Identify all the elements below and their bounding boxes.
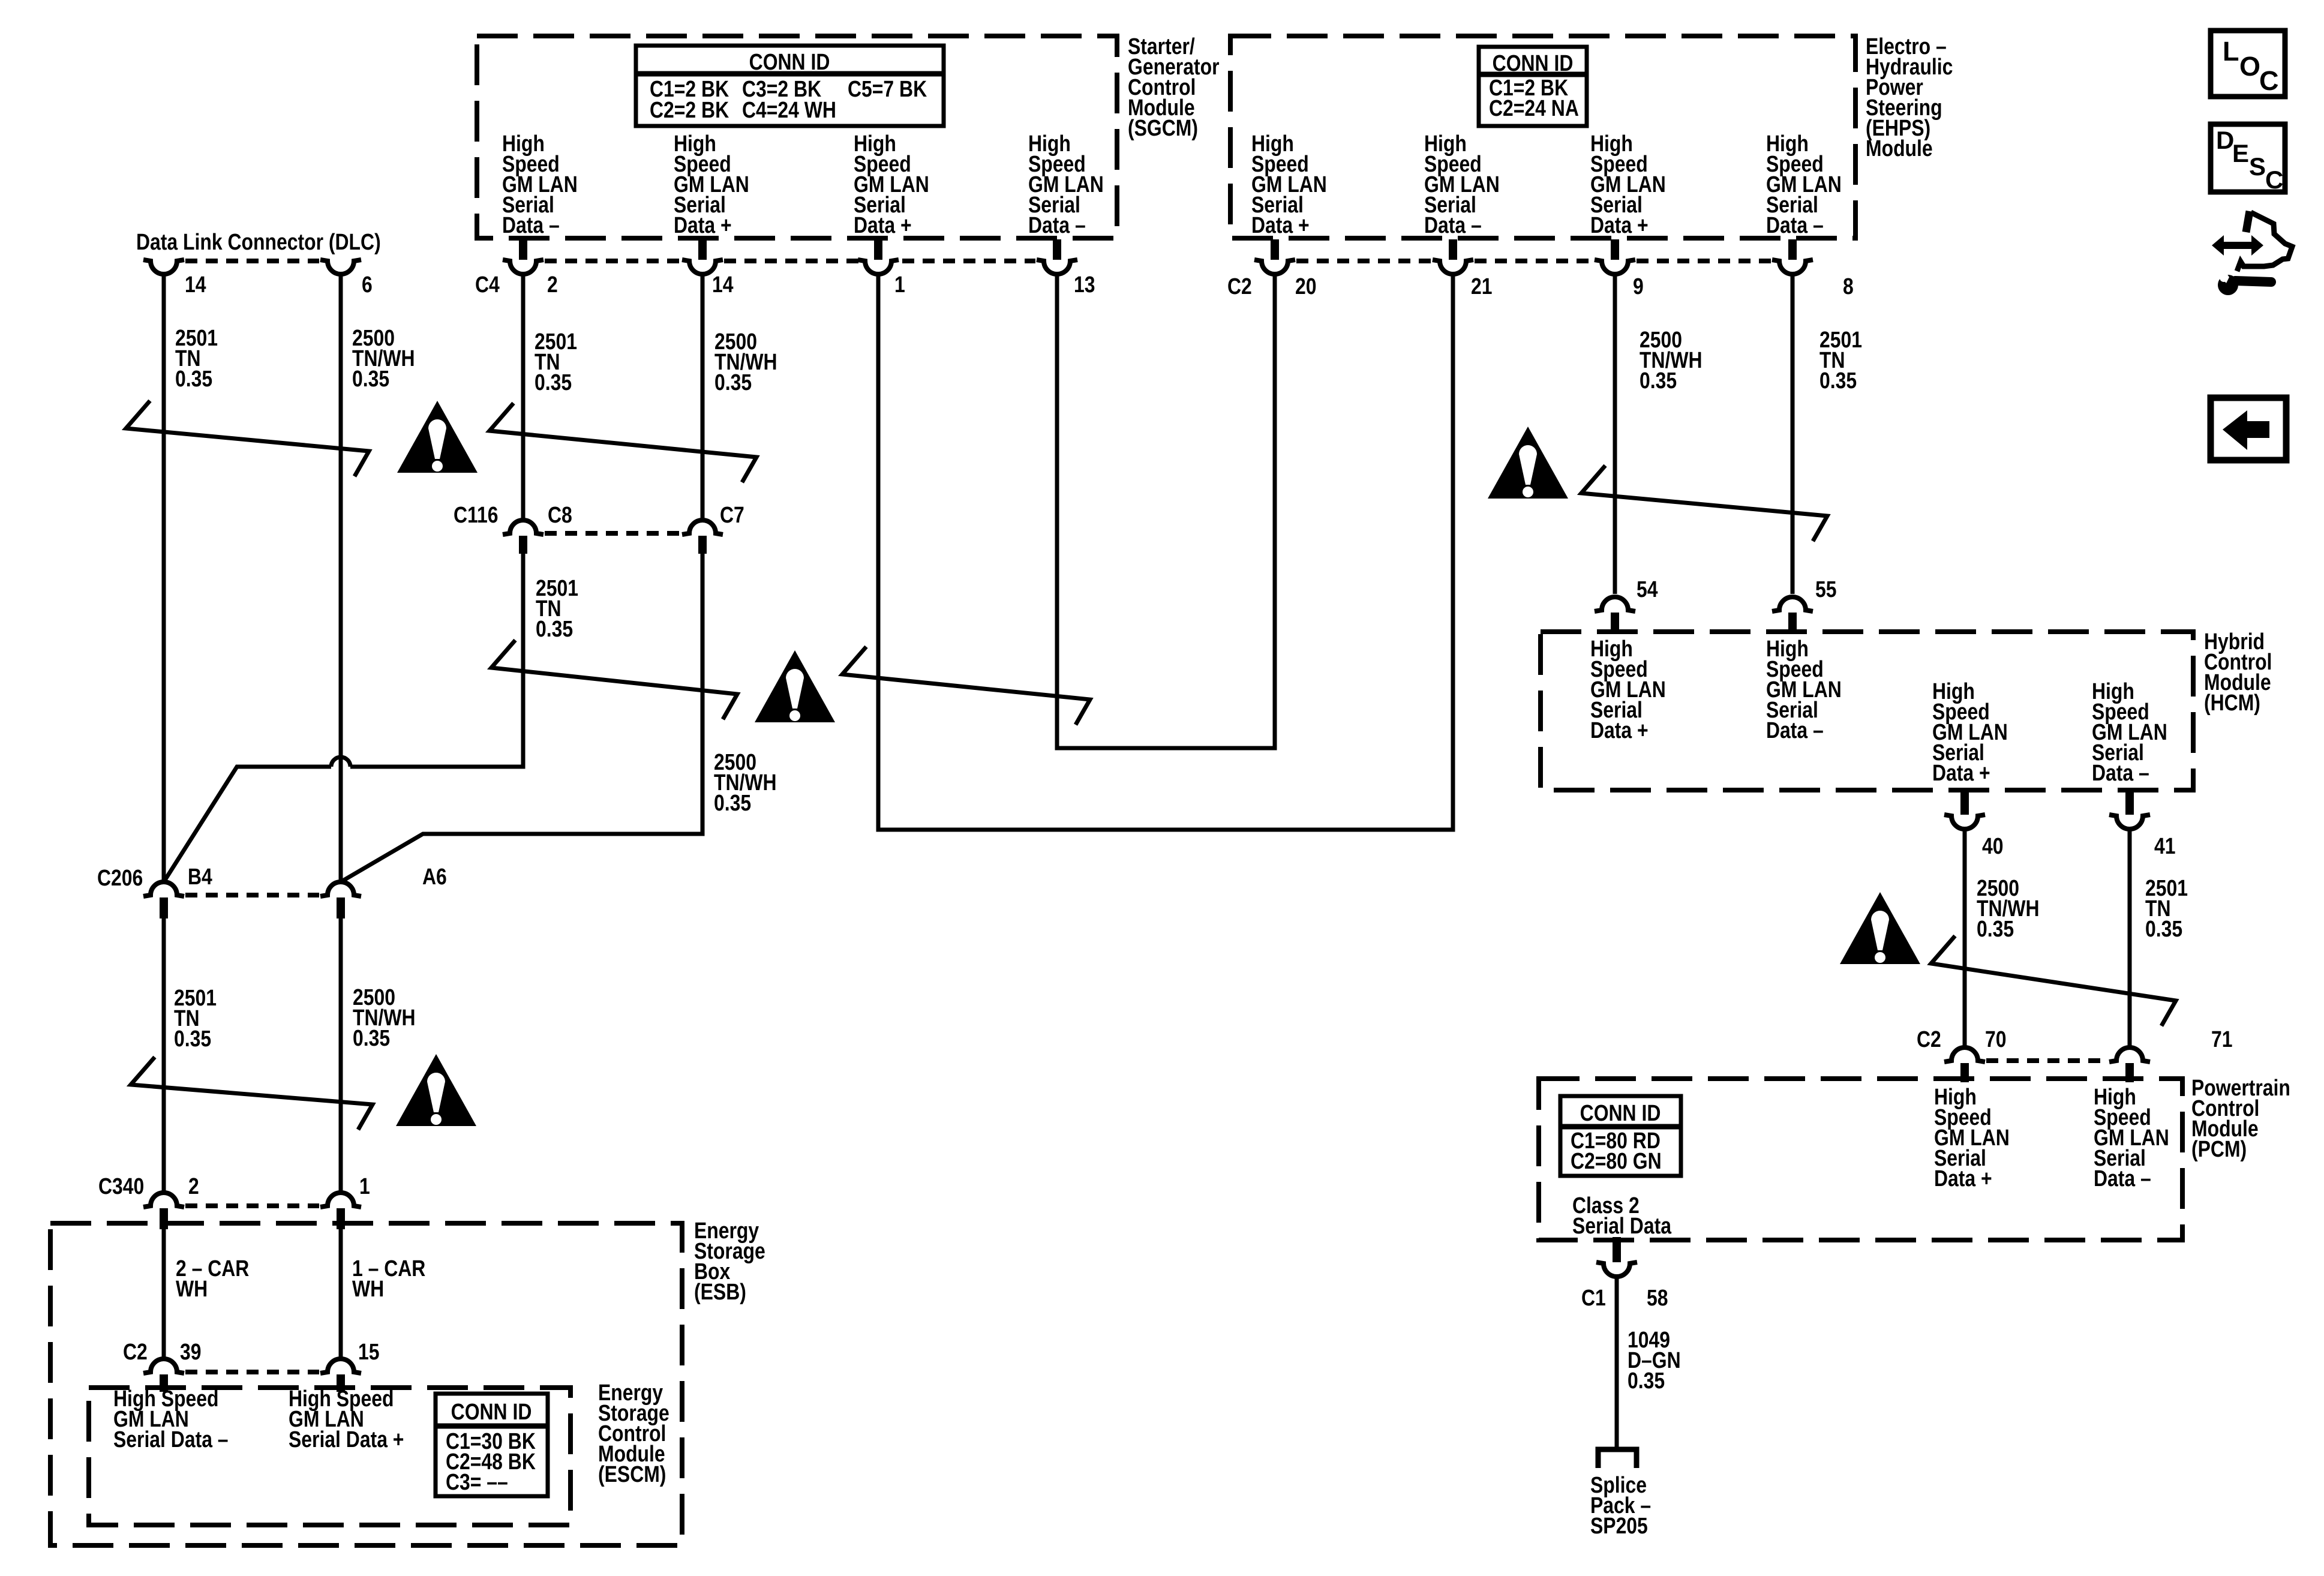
warning note triangle T2 (warning triangle) [755, 650, 835, 722]
svg-text:C3= ––: C3= –– [446, 1469, 508, 1494]
HCM pin 40 (male pin + terminal) [1944, 789, 1985, 829]
EHPS pin 9 [1595, 239, 1635, 274]
svg-text:Serial Data –: Serial Data – [113, 1427, 229, 1452]
connector C206 pin B4 terminal [143, 882, 184, 918]
PCM pin 71 function label [2094, 1084, 2169, 1191]
splice pack SP205 symbol [1598, 1449, 1637, 1468]
SGCM pin 1 function label [854, 131, 929, 238]
svg-text:6: 6 [362, 272, 373, 297]
svg-text:Data –: Data – [1766, 718, 1824, 743]
svg-text:2: 2 [188, 1173, 199, 1199]
icon DESC box [2211, 124, 2285, 194]
ESCM CONN ID table [436, 1394, 548, 1496]
svg-text:C206: C206 [97, 865, 143, 890]
wire label 2500 TN/WH 0.35 [1977, 875, 2040, 941]
svg-text:Serial Data +: Serial Data + [289, 1427, 404, 1452]
wire label 2500 TN/WH 0.35 [1640, 327, 1703, 393]
module EHPS box (dashed) [1230, 36, 1855, 238]
svg-text:(SGCM): (SGCM) [1128, 115, 1198, 140]
module ESB name label [694, 1218, 765, 1304]
svg-text:0.35: 0.35 [1819, 368, 1857, 393]
svg-text:(HCM): (HCM) [2204, 690, 2260, 715]
svg-text:CONN ID: CONN ID [451, 1399, 532, 1424]
svg-text:CONN ID: CONN ID [1580, 1100, 1661, 1125]
wire 2501 TN: C206 pin B4 to C340 pin 2 [162, 918, 166, 1193]
wire 2501 TN: C8 toward C206 B4 (right part) [350, 554, 523, 767]
wire 2500 TN/WH: HCM pin 40 to PCM pin 70 [1963, 829, 1967, 1047]
svg-text:Data Link Connector (DLC): Data Link Connector (DLC) [136, 229, 381, 254]
svg-text:40: 40 [1982, 833, 2004, 858]
svg-text:Data –: Data – [2094, 1166, 2151, 1191]
svg-text:Data –: Data – [1028, 212, 1086, 238]
HCM pin 55 terminal [1772, 597, 1813, 634]
PCM Class 2 Serial Data label [1572, 1193, 1671, 1238]
HCM pin 41 [2109, 789, 2150, 829]
ESCM pin 39 function label [113, 1386, 229, 1452]
svg-text:(ESB): (ESB) [694, 1279, 746, 1304]
svg-text:14: 14 [185, 272, 206, 297]
wire label 1-CAR WH [352, 1256, 425, 1301]
svg-text:0.35: 0.35 [352, 366, 389, 391]
ESCM pin 39 terminal [143, 1359, 184, 1392]
svg-text:8: 8 [1843, 274, 1854, 299]
twisted pair HCM pin40/pin41 wires (twisted-pair symbol) [1931, 936, 2176, 1026]
svg-text:21: 21 [1471, 274, 1493, 299]
svg-text:0.35: 0.35 [535, 370, 572, 395]
twisted pair C8/C7 wires (twisted-pair symbol) [491, 640, 737, 719]
wire label 2-CAR WH [176, 1256, 249, 1301]
twisted pair DLC wires (twisted-pair symbol) [126, 401, 369, 476]
wire 2500 TN/WH: DLC pin 6 to C206 pin A6 [339, 274, 343, 882]
wire label 2501 TN 0.35 [174, 985, 217, 1051]
svg-text:Data +: Data + [674, 212, 732, 238]
HCM pin 54 terminal [1595, 597, 1635, 634]
svg-text:Module: Module [1866, 136, 1933, 161]
svg-text:0.35: 0.35 [2145, 916, 2182, 941]
connector DLC pin 14 terminal [143, 260, 184, 274]
EHPS pin 9 function label [1590, 131, 1666, 238]
icon back-arrow box [2211, 398, 2286, 460]
SGCM pin 2 (male pin + terminal) [503, 239, 544, 274]
svg-text:Data +: Data + [1934, 1166, 1992, 1191]
warning note triangle T1 (warning triangle) [397, 401, 478, 473]
EHPS pin 20 [1254, 239, 1295, 274]
wire hop over vertical wire at x=568 [331, 757, 350, 767]
wire 1049 D-GN: PCM pin 58 to splice pack SP205 [1615, 1277, 1619, 1447]
svg-text:70: 70 [1985, 1026, 2007, 1052]
svg-text:Data +: Data + [1590, 718, 1649, 743]
svg-text:Data +: Data + [1590, 212, 1649, 238]
connector C340 body (dashed) [185, 1203, 319, 1208]
wire label 2500 TN/WH 0.35 [352, 325, 415, 391]
svg-text:C2: C2 [1227, 274, 1252, 299]
svg-text:C340: C340 [98, 1173, 144, 1199]
wire label 2501 TN 0.35 [535, 329, 577, 395]
wire label 2500 TN/WH 0.35 [353, 984, 416, 1050]
module ESCM box (dashed) [89, 1388, 571, 1525]
connector C116/C8/C7 body (dashed) [545, 531, 681, 536]
wire 2501 TN: SGCM pin 2 to C116 pin C8 [521, 274, 526, 520]
icon connector-repair (arrow through connector + wrench) [2212, 211, 2292, 295]
module ESB box (dashed) [50, 1223, 682, 1545]
svg-text:0.35: 0.35 [174, 1026, 211, 1051]
svg-text:0.35: 0.35 [353, 1025, 390, 1050]
connector C4 body (dashed) [545, 259, 681, 263]
twisted pair SGCM pin1/pin13 wires (twisted-pair symbol) [842, 647, 1090, 725]
wire label 2501 TN 0.35 [2145, 875, 2188, 941]
SGCM pin 2 function label [502, 131, 578, 238]
svg-text:39: 39 [180, 1339, 202, 1364]
SGCM CONN ID table [636, 46, 944, 126]
svg-text:O: O [2239, 51, 2260, 82]
svg-text:(ESCM): (ESCM) [598, 1461, 666, 1487]
connector DLC body (dashed) [185, 259, 319, 263]
wire 2501 TN: DLC pin 14 to C206 pin B4 [162, 274, 166, 882]
HCM pin 55 function label [1766, 636, 1842, 743]
svg-text:SP205: SP205 [1590, 1513, 1648, 1538]
svg-text:Data –: Data – [1424, 212, 1482, 238]
HCM pin 41 function label [2092, 679, 2167, 785]
svg-text:C2=24 NA: C2=24 NA [1489, 95, 1579, 121]
EHPS CONN ID table [1479, 47, 1587, 126]
module EHPS name label [1866, 34, 1953, 161]
svg-text:0.35: 0.35 [1977, 916, 2014, 941]
icon LOC box [2211, 31, 2285, 97]
PCM pin 70 function label [1934, 1084, 2010, 1191]
svg-text:L: L [2223, 36, 2239, 67]
svg-text:41: 41 [2154, 833, 2176, 858]
svg-text:(PCM): (PCM) [2191, 1136, 2247, 1161]
connector C206 pin A6 terminal [320, 882, 361, 918]
ESCM pin 15 terminal [320, 1359, 361, 1392]
svg-text:14: 14 [712, 272, 734, 297]
svg-text:0.35: 0.35 [175, 366, 212, 391]
svg-text:9: 9 [1633, 274, 1644, 299]
svg-text:WH: WH [176, 1276, 208, 1301]
svg-text:CONN ID: CONN ID [1493, 50, 1574, 76]
module PCM box (dashed) [1539, 1079, 2182, 1240]
EHPS pin 8 [1772, 239, 1813, 274]
svg-text:Serial Data: Serial Data [1572, 1213, 1671, 1238]
svg-text:1: 1 [359, 1173, 370, 1199]
svg-text:S: S [2249, 152, 2266, 181]
warning note triangle T4 (warning triangle) [1840, 892, 1920, 964]
connector C206 body (dashed) [185, 893, 319, 897]
svg-text:C8: C8 [548, 502, 572, 527]
svg-text:C2=2 BK: C2=2 BK [650, 97, 729, 122]
module PCM name label [2191, 1075, 2290, 1161]
svg-text:C2=80 GN: C2=80 GN [1571, 1148, 1662, 1173]
svg-text:Data –: Data – [2092, 760, 2149, 785]
wire 2500 TN/WH: C7 to C206 A6 [341, 554, 702, 882]
splice pack SP205 label [1590, 1472, 1651, 1538]
svg-text:13: 13 [1074, 272, 1095, 297]
connector DLC pin 6 terminal [320, 260, 361, 274]
svg-text:C7: C7 [720, 502, 744, 527]
wire label 2500 TN/WH 0.35 [714, 329, 777, 395]
wire 1-CAR WH: C340 pin 1 to ESCM pin 15 [339, 1229, 343, 1359]
svg-text:WH: WH [352, 1276, 384, 1301]
wire label 2501 TN 0.35 [175, 325, 218, 391]
connector C116 pin C8 terminal [503, 520, 544, 554]
PCM pin 70 terminal [1944, 1047, 1985, 1082]
wire label 2500 TN/WH 0.35 [714, 749, 777, 815]
EHPS pin 8 function label [1766, 131, 1842, 238]
svg-text:A6: A6 [422, 864, 447, 889]
svg-text:C2: C2 [1917, 1026, 1941, 1052]
warning note triangle T3 (warning triangle) [1488, 427, 1568, 499]
svg-text:C1: C1 [1581, 1285, 1606, 1310]
wire label 2501 TN 0.35 [1819, 327, 1862, 393]
svg-text:E: E [2232, 139, 2249, 167]
connector C340 pin 2 terminal [143, 1193, 184, 1229]
svg-text:D: D [2216, 126, 2234, 154]
svg-text:0.35: 0.35 [536, 616, 573, 641]
wire 2501 TN: SGCM pin 13 to EHPS pin 20 [1057, 274, 1275, 748]
svg-text:C4: C4 [475, 272, 500, 297]
twisted pair C206/C340 wires (twisted-pair symbol) [131, 1057, 373, 1130]
twisted pair EHPS pin9/pin8 wires (twisted-pair symbol) [1581, 466, 1827, 541]
EHPS pin 21 function label [1424, 131, 1500, 238]
module SGCM box (dashed) [477, 36, 1117, 238]
svg-text:C: C [2259, 65, 2279, 96]
svg-text:20: 20 [1295, 274, 1317, 299]
HCM pin 40 function label [1932, 679, 2008, 785]
wire label 2501 TN 0.35 [536, 575, 578, 641]
SGCM pin 13 function label [1028, 131, 1104, 238]
svg-text:55: 55 [1815, 577, 1837, 602]
svg-text:C: C [2265, 166, 2283, 194]
wire 2501 TN: HCM pin 41 to PCM pin 71 [2128, 829, 2132, 1047]
wire 2501 TN: C8 toward C206 B4 (left part + diagonal) [164, 767, 331, 882]
svg-text:54: 54 [1637, 577, 1658, 602]
connector C116 pin C7 terminal [682, 520, 723, 554]
svg-text:71: 71 [2211, 1026, 2233, 1052]
svg-text:Data +: Data + [1251, 212, 1310, 238]
svg-text:0.35: 0.35 [714, 790, 751, 815]
connector ESCM C2 body (dashed) [185, 1370, 319, 1374]
wire 2500 TN/WH: C206 pin A6 to C340 pin 1 [339, 918, 343, 1193]
PCM pin 58 (male pin + terminal) [1596, 1237, 1637, 1277]
connector EHPS C2 body (dashed) [1296, 259, 1431, 263]
EHPS pin 20 function label [1251, 131, 1327, 238]
svg-text:15: 15 [358, 1339, 380, 1364]
svg-text:B4: B4 [188, 864, 212, 889]
connector C340 pin 1 terminal [320, 1193, 361, 1229]
wire 2500 TN/WH: SGCM pin 1 to EHPS pin 21 [878, 274, 1453, 830]
svg-text:0.35: 0.35 [1640, 368, 1677, 393]
wire 2500 TN/WH: SGCM pin 14 to C116 pin C7 [701, 274, 705, 520]
svg-text:Data –: Data – [1766, 212, 1824, 238]
EHPS pin 21 [1433, 239, 1473, 274]
svg-text:C116: C116 [454, 502, 499, 527]
wire 2500 TN/WH: EHPS pin 9 to HCM pin 54 [1613, 274, 1617, 594]
twisted pair SGCM pin2/pin14 wires (twisted-pair symbol) [490, 403, 756, 482]
HCM pin 54 function label [1590, 636, 1666, 743]
wire 2-CAR WH: C340 pin 2 to ESCM pin 39 [162, 1229, 166, 1359]
module SGCM name label [1128, 34, 1220, 140]
connector PCM C2 body (dashed) [1986, 1058, 2108, 1063]
svg-text:Data +: Data + [1932, 760, 1990, 785]
SGCM pin 13 [1037, 239, 1077, 274]
module HCM name label [2204, 629, 2272, 715]
svg-text:C4=24 WH: C4=24 WH [742, 97, 836, 122]
wire 2501 TN: EHPS pin 8 to HCM pin 55 [1791, 274, 1795, 594]
PCM pin 71 terminal [2109, 1047, 2150, 1082]
PCM CONN ID table [1560, 1096, 1681, 1176]
SGCM pin 1 [858, 239, 899, 274]
wire label 1049 D-GN 0.35 [1628, 1327, 1681, 1393]
svg-text:58: 58 [1647, 1285, 1668, 1310]
module ESCM name label [598, 1380, 669, 1487]
svg-text:2: 2 [547, 272, 558, 297]
svg-text:1: 1 [894, 272, 905, 297]
SGCM pin 14 function label [674, 131, 749, 238]
SGCM pin 14 [682, 239, 723, 274]
svg-text:Data +: Data + [854, 212, 912, 238]
svg-text:CONN ID: CONN ID [749, 49, 830, 74]
svg-text:Data –: Data – [502, 212, 560, 238]
svg-text:0.35: 0.35 [714, 370, 752, 395]
svg-text:C5=7 BK: C5=7 BK [848, 76, 927, 101]
ESCM pin 15 function label [289, 1386, 404, 1452]
svg-text:C2: C2 [123, 1339, 148, 1364]
module HCM box (dashed) [1541, 632, 2193, 790]
warning note triangle T5 (warning triangle) [396, 1054, 476, 1126]
svg-text:0.35: 0.35 [1628, 1368, 1665, 1393]
